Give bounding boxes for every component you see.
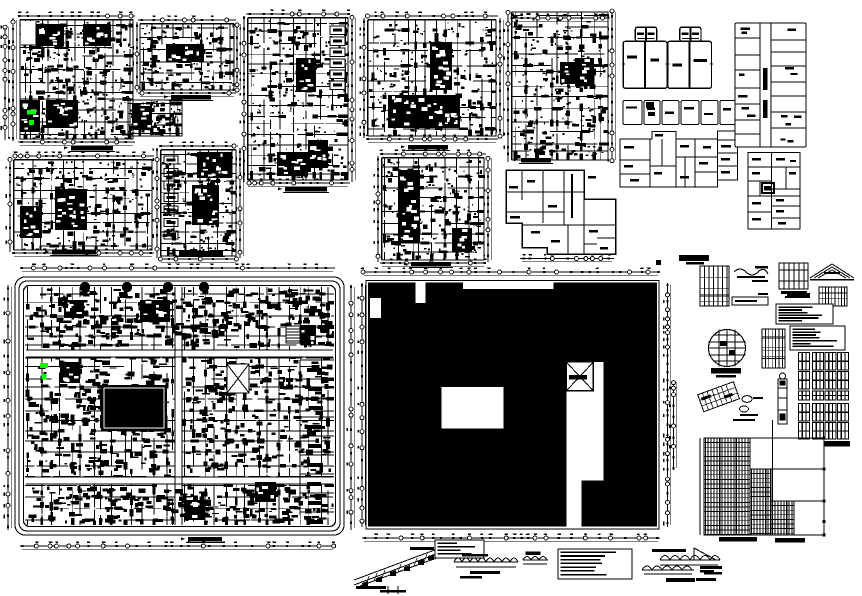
right wing rooms of P: [300, 360, 334, 515]
section reference lines: [704, 420, 824, 535]
dimension column right of floor plan C (tall block): [352, 16, 355, 182]
solid poche block of floor plan E (ground floor annex): [55, 189, 87, 230]
dimension row top of floor plan G: [366, 16, 498, 19]
solid poche block of floor plan C (tall block): [277, 152, 308, 176]
interior walls of floor plan C (tall block): [248, 18, 348, 180]
dimension row top of plan I: [510, 18, 610, 21]
outer walls of floor plan I (tall middle block): [512, 12, 608, 160]
floor plan B (upper floor): [133, 16, 241, 101]
unit plans cluster M: [620, 131, 738, 187]
dimension column left of floor plan I (tall middle block): [508, 10, 511, 162]
unit L2 stair marks: [646, 102, 655, 116]
solid poche block of floor plan H: [398, 170, 420, 243]
title bar of floor plan H: [411, 262, 451, 267]
outline of M: [620, 131, 738, 187]
interior walls of floor plan I (tall middle block): [512, 12, 608, 160]
large ground floor plan P: [4, 264, 355, 550]
dimension column right of floor plan G: [500, 18, 503, 138]
striped panel detail: [762, 329, 785, 368]
dimension column right of Q: [668, 283, 671, 527]
label under window grid: [824, 441, 850, 447]
unit L1: [623, 101, 642, 125]
outline of J: [506, 170, 616, 254]
small furniture marks of floor plan G: [369, 22, 494, 131]
fixtures of floor plan I (tall middle block): [513, 13, 606, 159]
unit L4: [681, 101, 699, 125]
fixtures of floor plan E (ground floor annex): [16, 162, 150, 246]
unit L6: [720, 101, 736, 125]
partitions of M: [620, 139, 738, 187]
small furniture marks of floor plan F (stair tower): [162, 152, 234, 254]
floor plan A (first floor hostel block): [9, 12, 135, 152]
unit L5: [701, 101, 718, 125]
dimension row top of Q: [362, 272, 660, 275]
dimension column right of floor plan I (tall middle block): [612, 10, 615, 162]
unit K roof tabs: [635, 27, 656, 41]
interior walls of stair detail plan B2: [128, 100, 182, 136]
tile tier 2: [750, 469, 770, 535]
central courtyard (solid) of P: [101, 385, 167, 431]
solid poche block of floor plan I (tall middle block): [560, 62, 575, 84]
solid poche block of floor plan A (first floor hostel block): [20, 100, 40, 132]
unit plans group K (two pairs of bay units): [622, 27, 713, 88]
interior walls of P: [25, 287, 334, 525]
fixtures of P: [27, 288, 334, 348]
floor plan G: [360, 12, 504, 151]
window grid array (4 x 5 multipane windows): [799, 353, 849, 440]
solid poche block of stair detail plan B2: [132, 106, 152, 130]
fixtures of floor plan H: [383, 159, 481, 259]
dimension row bottom of P: [20, 546, 335, 549]
elevator shaft with X inside Q opening: [566, 362, 593, 391]
solid poche block of floor plan F (stair tower): [197, 152, 232, 178]
title bar of floor plan I (tall middle block): [521, 158, 551, 163]
dimension row bottom of floor plan G: [366, 139, 498, 142]
bracket detail D1: [734, 266, 768, 282]
title bar of floor plan A (first floor hostel block): [71, 146, 113, 151]
solid poche block of floor plan H: [452, 228, 472, 252]
note text block T1: [776, 304, 833, 324]
small mark left of label bar: [656, 260, 661, 265]
floor plan C (tall block): [240, 10, 356, 193]
fitting dashes of O: [752, 158, 796, 224]
dimension column left of floor plan H: [378, 156, 381, 262]
title bar of floor plan G: [408, 145, 448, 150]
solid roof slab of Q with openings: [368, 283, 657, 527]
solid poche block of floor plan I (tall middle block): [575, 58, 594, 86]
fixtures of floor plan B (upper floor): [143, 27, 232, 89]
note text block T2: [790, 326, 845, 350]
small furniture marks of floor plan I (tall middle block): [513, 13, 605, 156]
dimension row top of floor plan B (upper floor): [138, 20, 236, 23]
door/fitting dashes of J: [509, 176, 608, 249]
title bar of floor plan B (upper floor): [171, 95, 211, 100]
outer walls of stair detail plan B2: [128, 100, 182, 136]
solid poche block of floor plan G: [430, 42, 452, 90]
fixtures of floor plan G: [369, 23, 494, 134]
secondary dimension chain right of Q: [674, 380, 677, 470]
title bar of floor plan F (stair tower): [179, 251, 223, 256]
dimension column left of floor plan B (upper floor): [137, 22, 140, 92]
outer walls of floor plan F (stair tower): [161, 150, 236, 256]
floor plan F (stair tower): [153, 142, 244, 263]
outer walls of floor plan H: [382, 158, 484, 260]
corridors of P: [26, 287, 333, 525]
interior walls of floor plan H: [382, 158, 484, 260]
unit pair body: [668, 41, 712, 88]
solid poche block of floor plan A (first floor hostel block): [83, 24, 111, 46]
dimension row bottom of floor plan F (stair tower): [159, 259, 238, 262]
outer walls of floor plan B (upper floor): [140, 24, 234, 90]
core walls of O (solid): [762, 183, 774, 193]
hatched box detail: [819, 287, 847, 306]
dimension column left of floor plan A (first floor hostel block): [13, 18, 16, 141]
fixtures of floor plan F (stair tower): [162, 157, 234, 254]
fixtures of stair detail plan B2: [131, 102, 176, 135]
dimension column left of P: [8, 285, 11, 530]
dimension row top of P: [20, 268, 335, 271]
corridor of N: [760, 23, 771, 147]
dimension row top of floor plan E (ground floor annex): [12, 156, 154, 159]
dimension row top of floor plan F (stair tower): [159, 146, 238, 149]
dimension column right of floor plan H: [488, 156, 491, 262]
unit plans cluster O: [748, 153, 800, 230]
rail detail D2: [732, 293, 768, 305]
small furniture marks of floor plan A (first floor hostel block): [23, 22, 130, 138]
fitting dashes of M: [624, 134, 731, 181]
dimension row bottom of Q: [362, 538, 660, 541]
outer walls of floor plan C (tall block): [248, 18, 348, 180]
dimension row top of floor plan A (first floor hostel block): [18, 16, 135, 19]
dimension column left of floor plan F (stair tower): [157, 148, 160, 258]
dimension column right of floor plan F (stair tower): [240, 148, 243, 258]
solid poche block of floor plan A (first floor hostel block): [46, 100, 78, 128]
dimension ticks on right reference line of tile section: [823, 437, 826, 537]
solid poche block of floor plan E (ground floor annex): [20, 206, 42, 238]
ramp section detail: [354, 547, 442, 594]
dimension column left of floor plan C (tall block): [244, 16, 247, 182]
stair opening step detail of Q: [566, 439, 581, 441]
tile tier 3: [771, 501, 793, 535]
fixtures of floor plan C (tall block): [249, 21, 346, 177]
title label bar right of plan Q: [679, 255, 709, 261]
scalloped coping detail: [660, 549, 720, 582]
entrance porch white pocket of A: [21, 21, 36, 45]
vertical pipe detail: [778, 373, 787, 424]
tilted stair detail: [698, 382, 740, 412]
floor plan H: [374, 150, 492, 268]
stair flight marks of J: [571, 174, 573, 218]
window bay ladder right edge of C: [330, 26, 345, 35]
title bar of floor plan C (tall block): [285, 187, 327, 192]
dimension column right of floor plan B (upper floor): [237, 22, 240, 92]
interior walls of floor plan A (first floor hostel block): [20, 20, 133, 139]
interior walls of floor plan E (ground floor annex): [14, 160, 152, 250]
green furniture highlight in plan P: [40, 363, 48, 368]
dimension column left of floor plan E (ground floor annex): [10, 158, 13, 252]
fixtures of floor plan A (first floor hostel block): [21, 21, 131, 138]
unit L3: [662, 101, 679, 125]
dimension row top of floor plan C (tall block): [246, 14, 350, 17]
wavy tile course detail: [454, 554, 518, 578]
spec text box S1: [435, 540, 484, 558]
small furniture marks of stair detail plan B2: [130, 101, 181, 132]
small fittings details: [733, 396, 763, 421]
unit plans cluster N: [735, 23, 806, 147]
small furniture marks of floor plan C (tall block): [252, 20, 346, 178]
dimension row bottom of floor plan B (upper floor): [138, 93, 236, 96]
unit plan J (typical flat layout): [506, 170, 616, 254]
floor plan I (tall middle block): [504, 9, 616, 163]
large roof / terrace plan Q (solid fill): [358, 268, 671, 542]
solid poche block of floor plan C (tall block): [296, 58, 316, 92]
column circles along top corridor of P: [80, 282, 90, 292]
dimension row bottom of floor plan C (tall block): [246, 183, 350, 186]
partitions of J: [506, 170, 616, 254]
label under circular detail: [711, 368, 741, 374]
dimension column right of P: [351, 285, 354, 530]
elevator shaft with X of P: [227, 364, 249, 393]
partitions of O: [748, 153, 800, 230]
solid poche blocks of P: [60, 362, 80, 383]
outer walls of floor plan E (ground floor annex): [14, 160, 152, 250]
small furniture marks of floor plan E (ground floor annex): [16, 161, 150, 248]
green furniture highlight in plan A: [27, 110, 36, 115]
dimension row bottom of floor plan E (ground floor annex): [12, 253, 154, 256]
floor plan E (ground floor annex): [6, 152, 154, 257]
solid poche block of floor plan A (first floor hostel block): [36, 24, 64, 46]
base bars of tile section: [719, 537, 805, 543]
solid poche block of floor plan F (stair tower): [192, 185, 219, 225]
circular window detail: [709, 330, 746, 367]
pediment / gable detail: [810, 264, 854, 280]
small wavy detail: [523, 552, 548, 564]
dimension column left of floor plan G: [364, 18, 367, 138]
interior walls of floor plan G: [368, 20, 496, 136]
dimension row bottom of J: [520, 259, 614, 262]
parapet flashing detail: [642, 548, 722, 581]
small furniture marks of floor plan H: [383, 160, 482, 256]
solid poche block of floor plan G: [388, 95, 460, 128]
dimension row bottom of floor plan H: [380, 263, 486, 266]
spec text box S2: [558, 549, 632, 579]
outer boundary walls of P (triple line): [15, 277, 344, 535]
stair hatch of P: [286, 326, 300, 343]
interior walls of floor plan F (stair tower): [161, 150, 236, 256]
window panel detail W1: [700, 266, 729, 306]
dimension row top of floor plan H: [380, 154, 486, 157]
stair bay ladder left edge of F: [164, 156, 178, 239]
dimension row bottom of floor plan A (first floor hostel block): [18, 142, 135, 145]
tile tier 1: [704, 438, 749, 535]
extra dimension column far left of A: [5, 25, 8, 140]
outer walls of floor plan A (first floor hostel block): [20, 20, 133, 139]
unit plans row L: [623, 101, 736, 125]
solid poche block of floor plan C (tall block): [308, 140, 328, 168]
roof boundary line of Q: [366, 281, 659, 530]
small furniture marks of floor plan B (upper floor): [141, 25, 227, 88]
dimension column left of Q: [362, 283, 365, 527]
unit L2: [644, 101, 660, 125]
outer walls of floor plan G: [368, 20, 496, 136]
window elevation detail W2: [779, 263, 808, 298]
solid poche block of floor plan B (upper floor): [166, 44, 204, 62]
interior walls of floor plan B (upper floor): [140, 24, 234, 90]
outline of O: [748, 153, 800, 230]
small label bar above striped panel: [787, 293, 810, 298]
stepped roof tile section detail: [700, 420, 825, 543]
unit pair body: [623, 41, 667, 88]
title bar of P: [188, 537, 222, 542]
stair detail plan B2: [128, 100, 182, 136]
title bar of floor plan E (ground floor annex): [52, 250, 96, 255]
